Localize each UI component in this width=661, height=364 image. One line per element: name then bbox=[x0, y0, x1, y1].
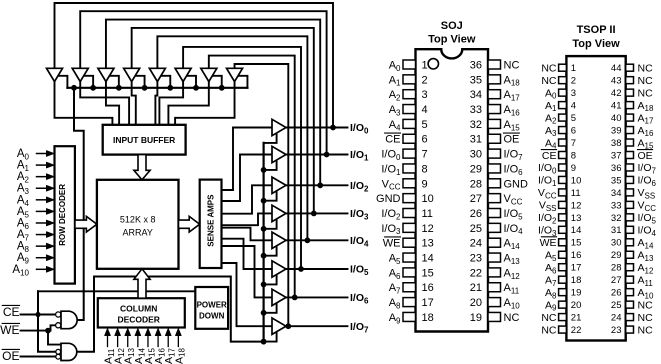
wire A10 arrow bbox=[37, 268, 48, 270]
node tap I/O4 feedback junction bbox=[305, 238, 310, 243]
SOJ pin 34 stub bbox=[488, 90, 501, 99]
wire I/O2 output line bbox=[286, 184, 348, 186]
svg-text:I/O2: I/O2 bbox=[381, 208, 401, 221]
svg-text:NC: NC bbox=[638, 75, 654, 87]
TSOP II pin 12 stub bbox=[559, 201, 567, 208]
TSOP II pin 37 stub bbox=[626, 151, 634, 158]
wire buffer 4 enable step bbox=[135, 76, 145, 88]
wire A15 arrow bbox=[147, 335, 149, 347]
SOJ pin 16 stub bbox=[403, 283, 416, 292]
svg-text:39: 39 bbox=[611, 125, 622, 136]
SOJ pin 35 stub bbox=[488, 75, 501, 84]
svg-text:24: 24 bbox=[470, 238, 482, 250]
SOJ pin 25 stub bbox=[488, 223, 501, 232]
svg-text:I/O6: I/O6 bbox=[638, 175, 657, 188]
TSOP II pin 19 stub bbox=[559, 289, 567, 296]
SOJ pin 26 stub bbox=[488, 209, 501, 218]
TSOP II pin 6 stub bbox=[559, 127, 567, 134]
svg-text:DECODER: DECODER bbox=[117, 314, 160, 324]
svg-text:SENSE AMPS: SENSE AMPS bbox=[207, 194, 216, 247]
svg-text:NC: NC bbox=[541, 62, 557, 74]
SOJ pin 29 stub bbox=[488, 164, 501, 173]
TSOP II pin 42 stub bbox=[626, 89, 634, 96]
wire A9 arrow bbox=[37, 257, 48, 259]
svg-text:A3: A3 bbox=[545, 125, 557, 138]
svg-text:21: 21 bbox=[470, 282, 482, 294]
svg-text:19: 19 bbox=[470, 312, 482, 324]
svg-text:12: 12 bbox=[422, 223, 434, 235]
svg-text:A17: A17 bbox=[504, 89, 521, 102]
svg-text:2: 2 bbox=[571, 76, 576, 87]
wire input enable bus bbox=[67, 87, 247, 89]
svg-text:NC: NC bbox=[638, 62, 654, 74]
svg-text:A0: A0 bbox=[545, 87, 557, 100]
svg-text:OE: OE bbox=[504, 134, 520, 146]
wire buffer 8 enable step bbox=[238, 76, 248, 88]
SOJ package outline bbox=[416, 49, 489, 331]
svg-text:31: 31 bbox=[611, 225, 622, 236]
svg-text:A0: A0 bbox=[389, 59, 401, 72]
svg-text:32: 32 bbox=[611, 213, 622, 224]
svg-text:I/O0: I/O0 bbox=[538, 162, 557, 175]
TSOP II pin 35 stub bbox=[626, 176, 634, 183]
buffer U15 (data-out) bbox=[272, 289, 286, 305]
svg-text:CE: CE bbox=[385, 134, 400, 146]
svg-text:COLUMN: COLUMN bbox=[120, 304, 157, 314]
svg-text:A10: A10 bbox=[638, 287, 654, 300]
svg-text:A10: A10 bbox=[12, 264, 29, 278]
wire buffer 3 enable step bbox=[109, 76, 119, 88]
svg-text:27: 27 bbox=[470, 193, 482, 205]
svg-text:512K x 8: 512K x 8 bbox=[120, 214, 156, 224]
svg-text:I/O1: I/O1 bbox=[381, 163, 401, 176]
wire output buffer 6 enable step bbox=[264, 302, 277, 312]
wire I/O7 output line bbox=[286, 325, 348, 327]
TSOP II pin 43 stub bbox=[626, 77, 634, 84]
svg-text:NC: NC bbox=[541, 75, 557, 87]
svg-text:20: 20 bbox=[470, 297, 482, 309]
svg-text:3: 3 bbox=[422, 89, 428, 101]
svg-text:WE: WE bbox=[383, 238, 401, 250]
wire I/O1 output line bbox=[286, 154, 348, 156]
TSOP II pin 44 stub bbox=[626, 64, 634, 71]
svg-text:24: 24 bbox=[611, 313, 622, 324]
SOJ pin 32 stub bbox=[488, 119, 501, 128]
wire OE to gate G2 bbox=[21, 356, 56, 358]
svg-text:A15: A15 bbox=[638, 137, 654, 150]
svg-text:7: 7 bbox=[422, 149, 428, 161]
TSOP II pin 18 stub bbox=[559, 276, 567, 283]
svg-text:21: 21 bbox=[571, 313, 582, 324]
svg-text:28: 28 bbox=[470, 178, 482, 190]
svg-text:I/O0: I/O0 bbox=[381, 149, 401, 162]
svg-text:33: 33 bbox=[470, 104, 482, 116]
wire I/O4 output line bbox=[286, 239, 348, 241]
SOJ pin 27 stub bbox=[488, 194, 501, 203]
svg-text:9: 9 bbox=[571, 163, 576, 174]
node WE junction bbox=[46, 328, 51, 333]
svg-text:16: 16 bbox=[422, 282, 434, 294]
svg-text:CE: CE bbox=[3, 305, 20, 319]
row decoder box bbox=[55, 146, 75, 283]
svg-text:VCC: VCC bbox=[638, 200, 657, 213]
svg-text:NC: NC bbox=[638, 324, 654, 336]
wire WE branch to gate G2 bbox=[48, 331, 62, 345]
node enable bus junction 6 bbox=[219, 85, 224, 90]
wire buffer 8 output to INPUT BUFFER bbox=[175, 82, 234, 125]
svg-text:13: 13 bbox=[571, 213, 582, 224]
wire feedback I/O4 to input buffer 5 bbox=[157, 36, 307, 240]
svg-text:29: 29 bbox=[470, 163, 482, 175]
svg-text:A5: A5 bbox=[389, 253, 401, 266]
svg-text:A1: A1 bbox=[389, 74, 401, 87]
svg-text:A16: A16 bbox=[638, 125, 654, 138]
buffer U6 (data-in inverter) bbox=[175, 68, 191, 81]
wire buffer 2 output to INPUT BUFFER bbox=[80, 82, 129, 125]
svg-text:10: 10 bbox=[422, 193, 434, 205]
svg-text:A5: A5 bbox=[545, 250, 557, 263]
wire sense amp output 7 bbox=[222, 263, 273, 326]
TSOP II pin 39 stub bbox=[626, 127, 634, 134]
TSOP II pin 40 stub bbox=[626, 114, 634, 121]
TSOP II pin 14 stub bbox=[559, 226, 567, 233]
wire G2 output to output enable bus bbox=[78, 277, 263, 352]
svg-text:NC: NC bbox=[638, 87, 654, 99]
SOJ pin 17 stub bbox=[403, 298, 416, 307]
arrow array to sense amps bbox=[179, 216, 200, 232]
TSOP II pin 22 stub bbox=[559, 326, 567, 333]
svg-text:33: 33 bbox=[611, 200, 622, 211]
buffer U9 (data-out) bbox=[272, 119, 286, 135]
svg-text:11: 11 bbox=[571, 188, 581, 199]
wire buffer 7 output to INPUT BUFFER bbox=[168, 82, 208, 125]
TSOP II pin 17 stub bbox=[559, 264, 567, 271]
svg-text:10: 10 bbox=[571, 175, 582, 186]
wire buffer 7 enable step bbox=[212, 76, 222, 88]
TSOP II pin 3 stub bbox=[559, 89, 567, 96]
svg-text:8: 8 bbox=[571, 150, 576, 161]
TSOP II pin 28 stub bbox=[626, 264, 634, 271]
wire output buffer 0 enable step bbox=[264, 133, 277, 143]
SOJ pin 33 stub bbox=[488, 105, 501, 114]
SOJ pin 7 stub bbox=[403, 149, 416, 158]
buffer U3 (data-in inverter) bbox=[98, 68, 114, 81]
node tap I/O7 feedback junction bbox=[286, 324, 291, 329]
svg-text:A17: A17 bbox=[638, 112, 654, 125]
svg-text:43: 43 bbox=[611, 76, 622, 87]
node output enable junction 6 bbox=[261, 310, 266, 315]
TSOP II pin 5 stub bbox=[559, 114, 567, 121]
SOJ pin 4 stub bbox=[403, 105, 416, 114]
svg-text:ARRAY: ARRAY bbox=[123, 227, 153, 237]
node output enable junction 3 bbox=[261, 226, 266, 231]
TSOP II pin 36 stub bbox=[626, 164, 634, 171]
svg-text:Top View: Top View bbox=[572, 38, 620, 50]
svg-text:A9: A9 bbox=[545, 299, 557, 312]
input buffer box bbox=[103, 125, 186, 155]
wire A7 arrow bbox=[37, 234, 48, 236]
svg-text:Top View: Top View bbox=[428, 34, 476, 46]
node output enable junction 1 bbox=[261, 168, 266, 173]
column decoder box bbox=[98, 298, 185, 327]
svg-text:35: 35 bbox=[611, 175, 622, 186]
svg-text:12: 12 bbox=[571, 200, 582, 211]
svg-text:4: 4 bbox=[422, 104, 428, 116]
wire feedback I/O6 to input buffer 7 bbox=[209, 56, 295, 298]
wire A18 arrow bbox=[177, 335, 179, 347]
svg-text:6: 6 bbox=[422, 134, 428, 146]
svg-text:19: 19 bbox=[571, 288, 582, 299]
node tap I/O0 feedback junction bbox=[331, 125, 336, 130]
svg-text:23: 23 bbox=[470, 253, 482, 265]
svg-text:22: 22 bbox=[470, 267, 482, 279]
sense amps box bbox=[200, 180, 222, 268]
node output enable junction 7 bbox=[261, 339, 266, 344]
wire feedback I/O3 to input buffer 4 bbox=[132, 28, 314, 214]
svg-text:VSS: VSS bbox=[539, 200, 557, 213]
buffer U8 (data-in inverter) bbox=[227, 68, 243, 81]
svg-text:27: 27 bbox=[611, 275, 622, 286]
svg-text:A13: A13 bbox=[504, 253, 521, 266]
SOJ pin 18 stub bbox=[403, 312, 416, 321]
svg-text:1: 1 bbox=[571, 63, 576, 74]
svg-text:29: 29 bbox=[611, 250, 622, 261]
svg-text:A1: A1 bbox=[545, 100, 557, 113]
svg-text:A12: A12 bbox=[504, 267, 521, 280]
svg-text:8: 8 bbox=[422, 163, 428, 175]
svg-text:WE: WE bbox=[0, 323, 19, 337]
svg-text:41: 41 bbox=[611, 101, 622, 112]
TSOP II package outline bbox=[566, 56, 625, 340]
wire buffer 6 enable step bbox=[186, 76, 196, 88]
node enable bus junction 1 bbox=[91, 85, 96, 90]
svg-text:VCC: VCC bbox=[382, 178, 401, 191]
svg-text:A8: A8 bbox=[389, 297, 401, 310]
svg-text:OE: OE bbox=[638, 150, 653, 162]
TSOP II pin 9 stub bbox=[559, 164, 567, 171]
svg-text:25: 25 bbox=[470, 223, 482, 235]
wire sense amp output 2 bbox=[222, 185, 273, 213]
SOJ pin 20 stub bbox=[488, 298, 501, 307]
wire A3 arrow bbox=[37, 187, 48, 189]
SOJ pin 9 stub bbox=[403, 179, 416, 188]
wire I/O0 output line bbox=[286, 127, 348, 129]
node enable bus junction 3 bbox=[142, 85, 147, 90]
TSOP II pin 10 stub bbox=[559, 176, 567, 183]
TSOP II pin 27 stub bbox=[626, 276, 634, 283]
TSOP II pin 41 stub bbox=[626, 102, 634, 109]
svg-text:A6: A6 bbox=[545, 262, 557, 275]
wire I/O6 output line bbox=[286, 296, 348, 298]
wire A8 arrow bbox=[37, 245, 48, 247]
SOJ pin 12 stub bbox=[403, 223, 416, 232]
svg-text:36: 36 bbox=[470, 59, 482, 71]
svg-text:GND: GND bbox=[504, 178, 529, 190]
TSOP II pin 38 stub bbox=[626, 139, 634, 146]
wire I/O3 output line bbox=[286, 212, 348, 214]
svg-text:I/O1: I/O1 bbox=[538, 175, 557, 188]
svg-text:3: 3 bbox=[571, 88, 576, 99]
buffer U2 (data-in inverter) bbox=[72, 68, 88, 81]
svg-text:A2: A2 bbox=[545, 112, 557, 125]
svg-text:4: 4 bbox=[571, 101, 576, 112]
svg-text:A11: A11 bbox=[638, 274, 654, 287]
svg-text:I/O6: I/O6 bbox=[504, 163, 524, 176]
svg-text:A2: A2 bbox=[389, 89, 401, 102]
svg-text:I/O7: I/O7 bbox=[638, 162, 657, 175]
svg-text:SOJ: SOJ bbox=[441, 20, 463, 32]
buffer U10 (data-out) bbox=[272, 146, 286, 162]
svg-text:POWER: POWER bbox=[197, 301, 227, 310]
svg-text:38: 38 bbox=[611, 138, 622, 149]
svg-text:WE: WE bbox=[540, 237, 557, 249]
svg-text:I/O4: I/O4 bbox=[638, 225, 657, 238]
svg-text:A14: A14 bbox=[504, 238, 521, 251]
node enable bus junction WE bbox=[72, 85, 77, 90]
SOJ pin 23 stub bbox=[488, 253, 501, 262]
svg-text:A12: A12 bbox=[638, 262, 654, 275]
svg-text:ROW DECODER: ROW DECODER bbox=[58, 184, 67, 246]
wire feedback I/O1 to input buffer 2 bbox=[80, 11, 326, 154]
wire buffer 1 output to INPUT BUFFER bbox=[55, 82, 113, 125]
wire feedback I/O7 to input buffer 8 bbox=[235, 64, 289, 326]
svg-text:VCC: VCC bbox=[504, 193, 523, 206]
svg-text:I/O2: I/O2 bbox=[350, 180, 369, 194]
svg-text:30: 30 bbox=[470, 149, 482, 161]
SOJ pin 36 stub bbox=[488, 60, 501, 69]
TSOP II pin 34 stub bbox=[626, 189, 634, 196]
wire output enable bus bbox=[263, 143, 265, 342]
svg-text:36: 36 bbox=[611, 163, 622, 174]
SOJ pin 8 stub bbox=[403, 164, 416, 173]
svg-text:A11: A11 bbox=[504, 282, 520, 295]
wire sense amp output 1 bbox=[222, 155, 273, 202]
TSOP II pin 11 stub bbox=[559, 189, 567, 196]
wire buffer 3 output to INPUT BUFFER bbox=[106, 82, 119, 125]
svg-text:I/O3: I/O3 bbox=[538, 225, 557, 238]
wire A17 arrow bbox=[167, 335, 169, 347]
svg-text:32: 32 bbox=[470, 119, 482, 131]
svg-text:18: 18 bbox=[422, 312, 434, 324]
buffer U14 (data-out) bbox=[272, 261, 286, 277]
TSOP II pin 16 stub bbox=[559, 251, 567, 258]
TSOP II pin 32 stub bbox=[626, 214, 634, 221]
svg-text:VSS: VSS bbox=[638, 187, 656, 200]
gate G2 output control bbox=[61, 343, 77, 360]
SOJ pin 3 stub bbox=[403, 90, 416, 99]
TSOP II pin 23 stub bbox=[626, 326, 634, 333]
node tap I/O2 feedback junction bbox=[318, 183, 323, 188]
svg-text:9: 9 bbox=[422, 178, 428, 190]
svg-text:A4: A4 bbox=[389, 119, 401, 132]
TSOP II pin 24 stub bbox=[626, 314, 634, 321]
svg-text:NC: NC bbox=[638, 312, 654, 324]
wire buffer 1 enable step bbox=[58, 76, 68, 88]
TSOP II pin 8 stub bbox=[559, 151, 567, 158]
svg-text:14: 14 bbox=[422, 253, 434, 265]
svg-text:40: 40 bbox=[611, 113, 622, 124]
SOJ pin 24 stub bbox=[488, 238, 501, 247]
TSOP II pin 1 stub bbox=[559, 64, 567, 71]
wire WE to gate G1 bbox=[21, 325, 56, 330]
svg-text:NC: NC bbox=[638, 299, 654, 311]
wire buffer 2 enable step bbox=[83, 76, 93, 88]
svg-text:TSOP II: TSOP II bbox=[577, 24, 616, 36]
svg-text:A10: A10 bbox=[504, 297, 521, 310]
svg-text:I/O0: I/O0 bbox=[350, 122, 369, 136]
svg-text:INPUT BUFFER: INPUT BUFFER bbox=[113, 135, 175, 145]
svg-text:A15: A15 bbox=[504, 119, 521, 132]
svg-text:23: 23 bbox=[611, 325, 622, 336]
buffer U4 (data-in inverter) bbox=[124, 68, 140, 81]
wire A0 arrow bbox=[37, 153, 48, 155]
svg-text:CE: CE bbox=[542, 150, 557, 162]
wire A13 arrow bbox=[127, 335, 129, 347]
wire sense amp output 4 bbox=[222, 228, 273, 241]
wire sense amp output 0 bbox=[222, 128, 273, 191]
svg-text:16: 16 bbox=[571, 250, 582, 261]
TSOP II pin 29 stub bbox=[626, 251, 634, 258]
SOJ pin 30 stub bbox=[488, 149, 501, 158]
wire I/O5 output line bbox=[286, 268, 348, 270]
svg-text:26: 26 bbox=[611, 288, 622, 299]
svg-text:A7: A7 bbox=[545, 274, 557, 287]
svg-text:13: 13 bbox=[422, 238, 434, 250]
node tap I/O5 feedback junction bbox=[299, 267, 304, 272]
arrow column decoder to array bbox=[134, 269, 150, 298]
wire output buffer 3 enable step bbox=[264, 218, 277, 228]
node output enable junction 5 bbox=[261, 282, 266, 287]
wire buffer 6 output to INPUT BUFFER bbox=[159, 82, 183, 125]
svg-text:A18: A18 bbox=[504, 74, 521, 87]
TSOP II pin 30 stub bbox=[626, 239, 634, 246]
svg-text:5: 5 bbox=[571, 113, 576, 124]
wire output buffer 7 enable step bbox=[264, 331, 277, 341]
svg-text:I/O1: I/O1 bbox=[350, 149, 369, 163]
node enable bus junction 2 bbox=[116, 85, 121, 90]
svg-text:37: 37 bbox=[611, 150, 622, 161]
SOJ pin 31 stub bbox=[488, 134, 501, 143]
svg-text:20: 20 bbox=[571, 300, 582, 311]
wire feedback I/O2 to input buffer 3 bbox=[106, 20, 320, 186]
SOJ pin 10 stub bbox=[403, 194, 416, 203]
SOJ pin 2 stub bbox=[403, 75, 416, 84]
node tap I/O6 feedback junction bbox=[292, 295, 297, 300]
svg-text:28: 28 bbox=[611, 263, 622, 274]
TSOP II pin 25 stub bbox=[626, 301, 634, 308]
wire enable from control gate G1 bbox=[74, 88, 84, 320]
svg-text:NC: NC bbox=[541, 324, 557, 336]
SOJ pin 19 stub bbox=[488, 312, 501, 321]
svg-text:11: 11 bbox=[422, 208, 433, 220]
wire sense amp output 6 bbox=[222, 246, 273, 297]
gate G1 write control bbox=[61, 311, 77, 329]
svg-text:A3: A3 bbox=[389, 104, 401, 117]
power down box bbox=[195, 287, 228, 329]
wire output buffer 5 enable step bbox=[264, 274, 277, 284]
node enable bus junction 4 bbox=[168, 85, 173, 90]
svg-text:5: 5 bbox=[422, 119, 428, 131]
svg-text:I/O7: I/O7 bbox=[504, 149, 524, 162]
svg-text:26: 26 bbox=[470, 208, 482, 220]
svg-text:I/O6: I/O6 bbox=[350, 292, 369, 306]
wire A2 arrow bbox=[37, 176, 48, 178]
wire CE branch to power down and G2 bbox=[38, 290, 195, 292]
SOJ pin 1 index circle bbox=[428, 59, 438, 69]
svg-text:I/O3: I/O3 bbox=[381, 223, 401, 236]
wire buffer 5 output to INPUT BUFFER bbox=[155, 82, 157, 125]
TSOP II pin 21 stub bbox=[559, 314, 567, 321]
